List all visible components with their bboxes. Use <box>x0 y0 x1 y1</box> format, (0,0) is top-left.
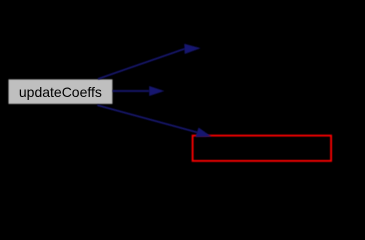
arrowhead of middle edge <box>150 87 163 96</box>
edge to top callee (wire) <box>98 49 185 79</box>
arrowhead of bottom edge <box>196 128 210 137</box>
edge to middle callee (wire) <box>113 90 150 92</box>
arrowhead of top edge <box>185 44 200 53</box>
edge to bottom callee (wire) <box>97 105 197 132</box>
svg-text:updateCoeffs: updateCoeffs <box>19 84 102 100</box>
node updateCoeffs (grey box) <box>9 79 113 104</box>
node truncated callee (red box) <box>193 136 332 161</box>
